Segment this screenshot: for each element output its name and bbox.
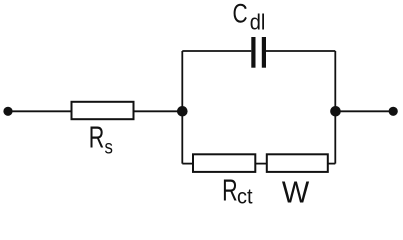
svg-text:dl: dl xyxy=(250,11,266,35)
resistor R2 (Rct) xyxy=(193,154,255,172)
svg-text:ct: ct xyxy=(237,185,253,209)
wire (bottom right) xyxy=(328,163,336,165)
resistor R3 (Warburg W) xyxy=(267,154,328,172)
capacitor C1 (Cdl) plates xyxy=(251,37,255,68)
wire (bottom left) xyxy=(182,163,193,165)
label Cdl xyxy=(233,0,266,35)
wire xyxy=(336,110,394,112)
node D (right terminal) xyxy=(389,107,398,116)
svg-text:R: R xyxy=(222,172,238,207)
wire (top left to capacitor) xyxy=(182,50,251,52)
wire (right vertical of parallel loop) xyxy=(334,51,336,164)
wire xyxy=(10,110,71,112)
svg-text:R: R xyxy=(89,120,105,155)
svg-text:s: s xyxy=(105,135,113,158)
resistor R1 (Rs) xyxy=(72,102,134,119)
node A (left terminal) xyxy=(3,107,12,116)
wire xyxy=(134,110,183,112)
label Rs xyxy=(89,120,113,158)
svg-text:C: C xyxy=(233,0,248,29)
node B (left junction) xyxy=(177,106,188,117)
svg-text:W: W xyxy=(282,176,309,210)
wire (left vertical of parallel loop) xyxy=(181,51,183,164)
wire (between Rct and W) xyxy=(255,163,266,165)
wire (capacitor to top right) xyxy=(266,50,335,52)
label Rct xyxy=(222,172,253,208)
node C (right junction) xyxy=(330,106,341,117)
